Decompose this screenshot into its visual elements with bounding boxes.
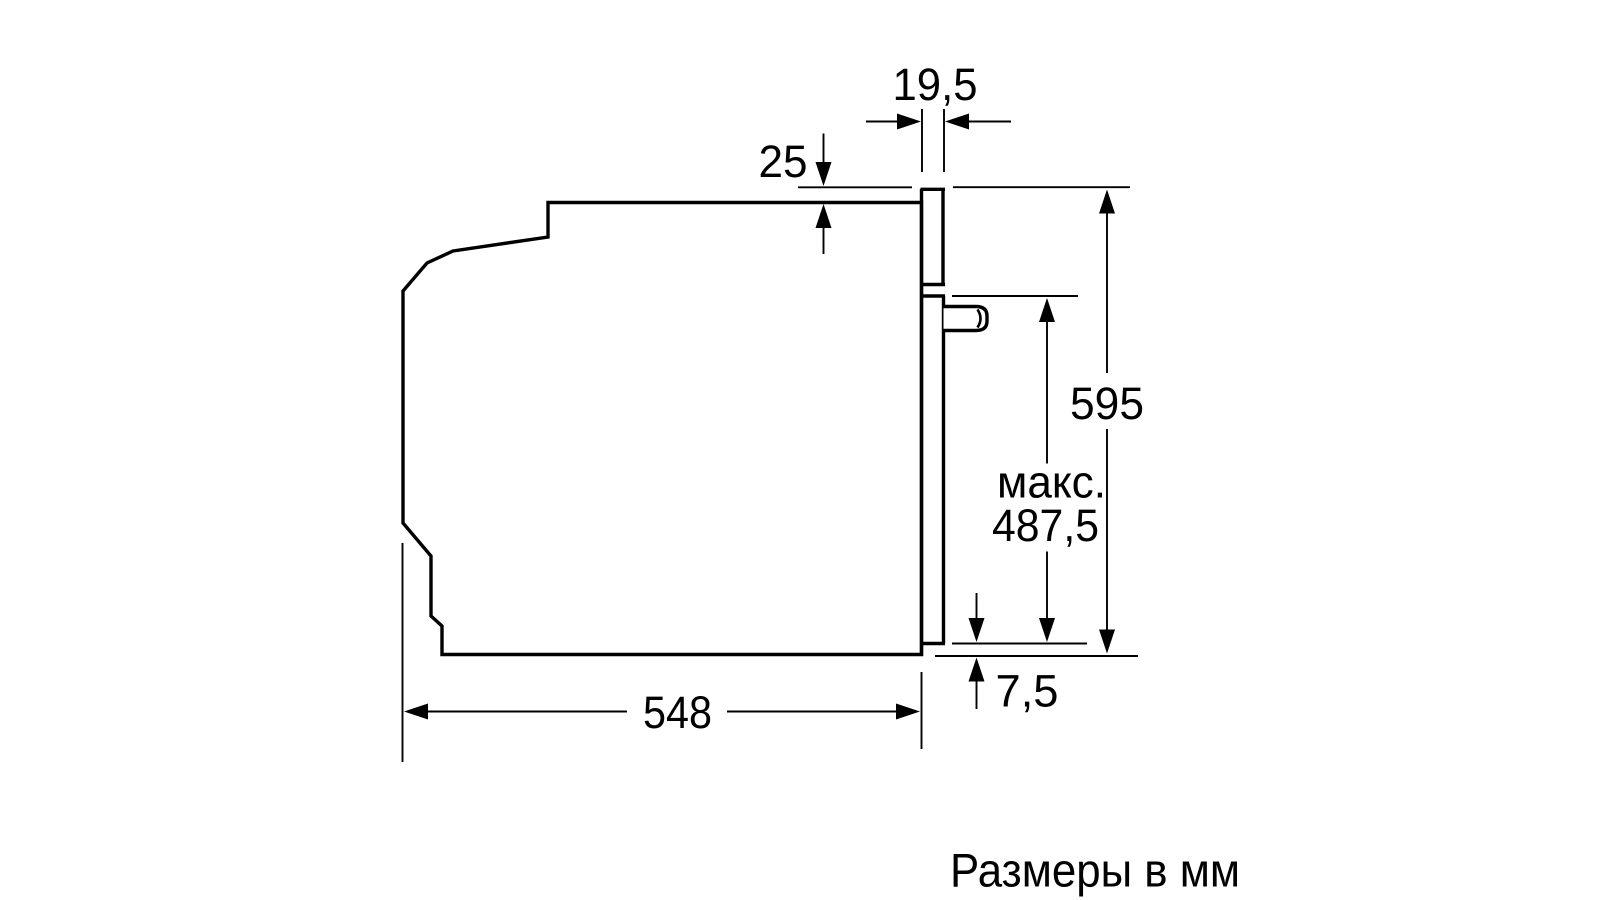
svg-text:Размеры в мм: Размеры в мм: [950, 844, 1240, 897]
svg-text:548: 548: [643, 687, 712, 738]
svg-text:25: 25: [759, 136, 808, 187]
svg-text:7,5: 7,5: [996, 666, 1059, 717]
svg-text:595: 595: [1070, 378, 1144, 429]
svg-text:487,5: 487,5: [992, 500, 1099, 551]
svg-text:19,5: 19,5: [893, 59, 978, 110]
